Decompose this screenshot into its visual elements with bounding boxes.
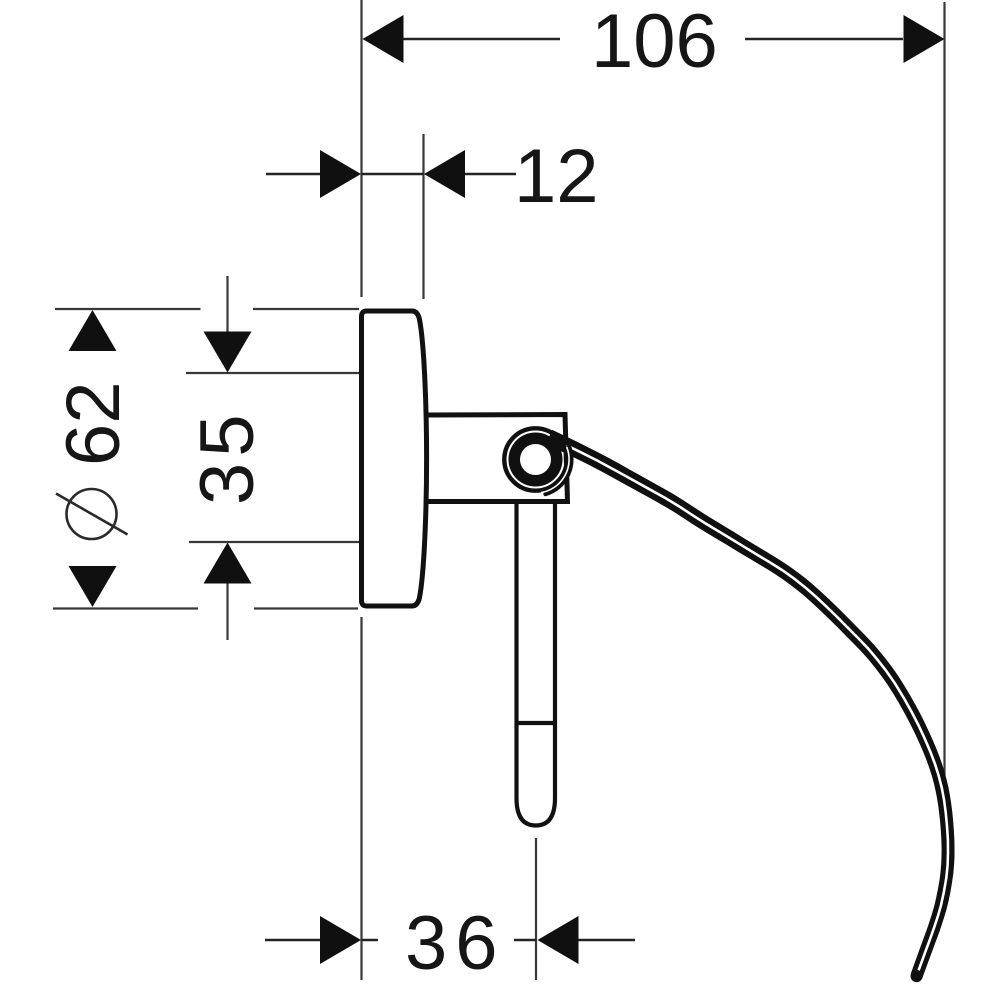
arrow dia62 top <box>69 310 117 351</box>
plate bottom extension line <box>53 607 198 609</box>
arrow 106 right <box>904 15 945 63</box>
svg-text:36: 36 <box>405 901 506 986</box>
arrow 35 bottom <box>204 543 252 584</box>
rod joint tick <box>517 721 556 725</box>
wall extension line upper <box>360 0 362 297</box>
pivot bushing <box>509 433 563 487</box>
hook separation gap <box>541 447 569 493</box>
spring wire white center <box>566 445 948 976</box>
roll holder rod <box>517 503 556 826</box>
holder arm <box>423 415 568 502</box>
35 bottom extension line <box>189 541 360 543</box>
svg-text:62: 62 <box>51 381 136 466</box>
wall plate <box>362 311 427 606</box>
wire tip cap <box>911 970 923 982</box>
extension line 12 right <box>422 134 424 299</box>
tail 35 top arrow <box>226 276 228 333</box>
arrow 106 left <box>363 15 404 63</box>
svg-text:106: 106 <box>591 0 718 84</box>
arrow 35 top <box>204 332 252 373</box>
dimension line 36 <box>265 939 320 942</box>
spring wire band <box>546 430 955 978</box>
wire end hook <box>545 444 571 494</box>
diameter symbol circle <box>67 489 117 539</box>
pivot hole <box>520 444 551 475</box>
tail 35 bottom arrow <box>226 583 228 641</box>
extension line 106 right <box>943 2 945 813</box>
arrow 12 right <box>424 150 465 198</box>
extension line 36 right <box>535 838 537 980</box>
35 top extension line <box>186 372 360 374</box>
arrow 36 right <box>538 916 579 964</box>
arrow 36 left <box>320 916 361 964</box>
dimension line 106 <box>403 38 560 41</box>
pivot wrap ring <box>504 428 566 490</box>
wall extension line lower <box>360 617 362 980</box>
svg-text:35: 35 <box>185 408 270 505</box>
diameter symbol slash <box>56 494 128 535</box>
dimension line 12 <box>266 173 320 176</box>
svg-text:12: 12 <box>514 134 599 219</box>
arrow 12 left <box>320 150 361 198</box>
arrow dia62 bottom <box>69 566 117 607</box>
plate top extension line <box>55 308 201 310</box>
